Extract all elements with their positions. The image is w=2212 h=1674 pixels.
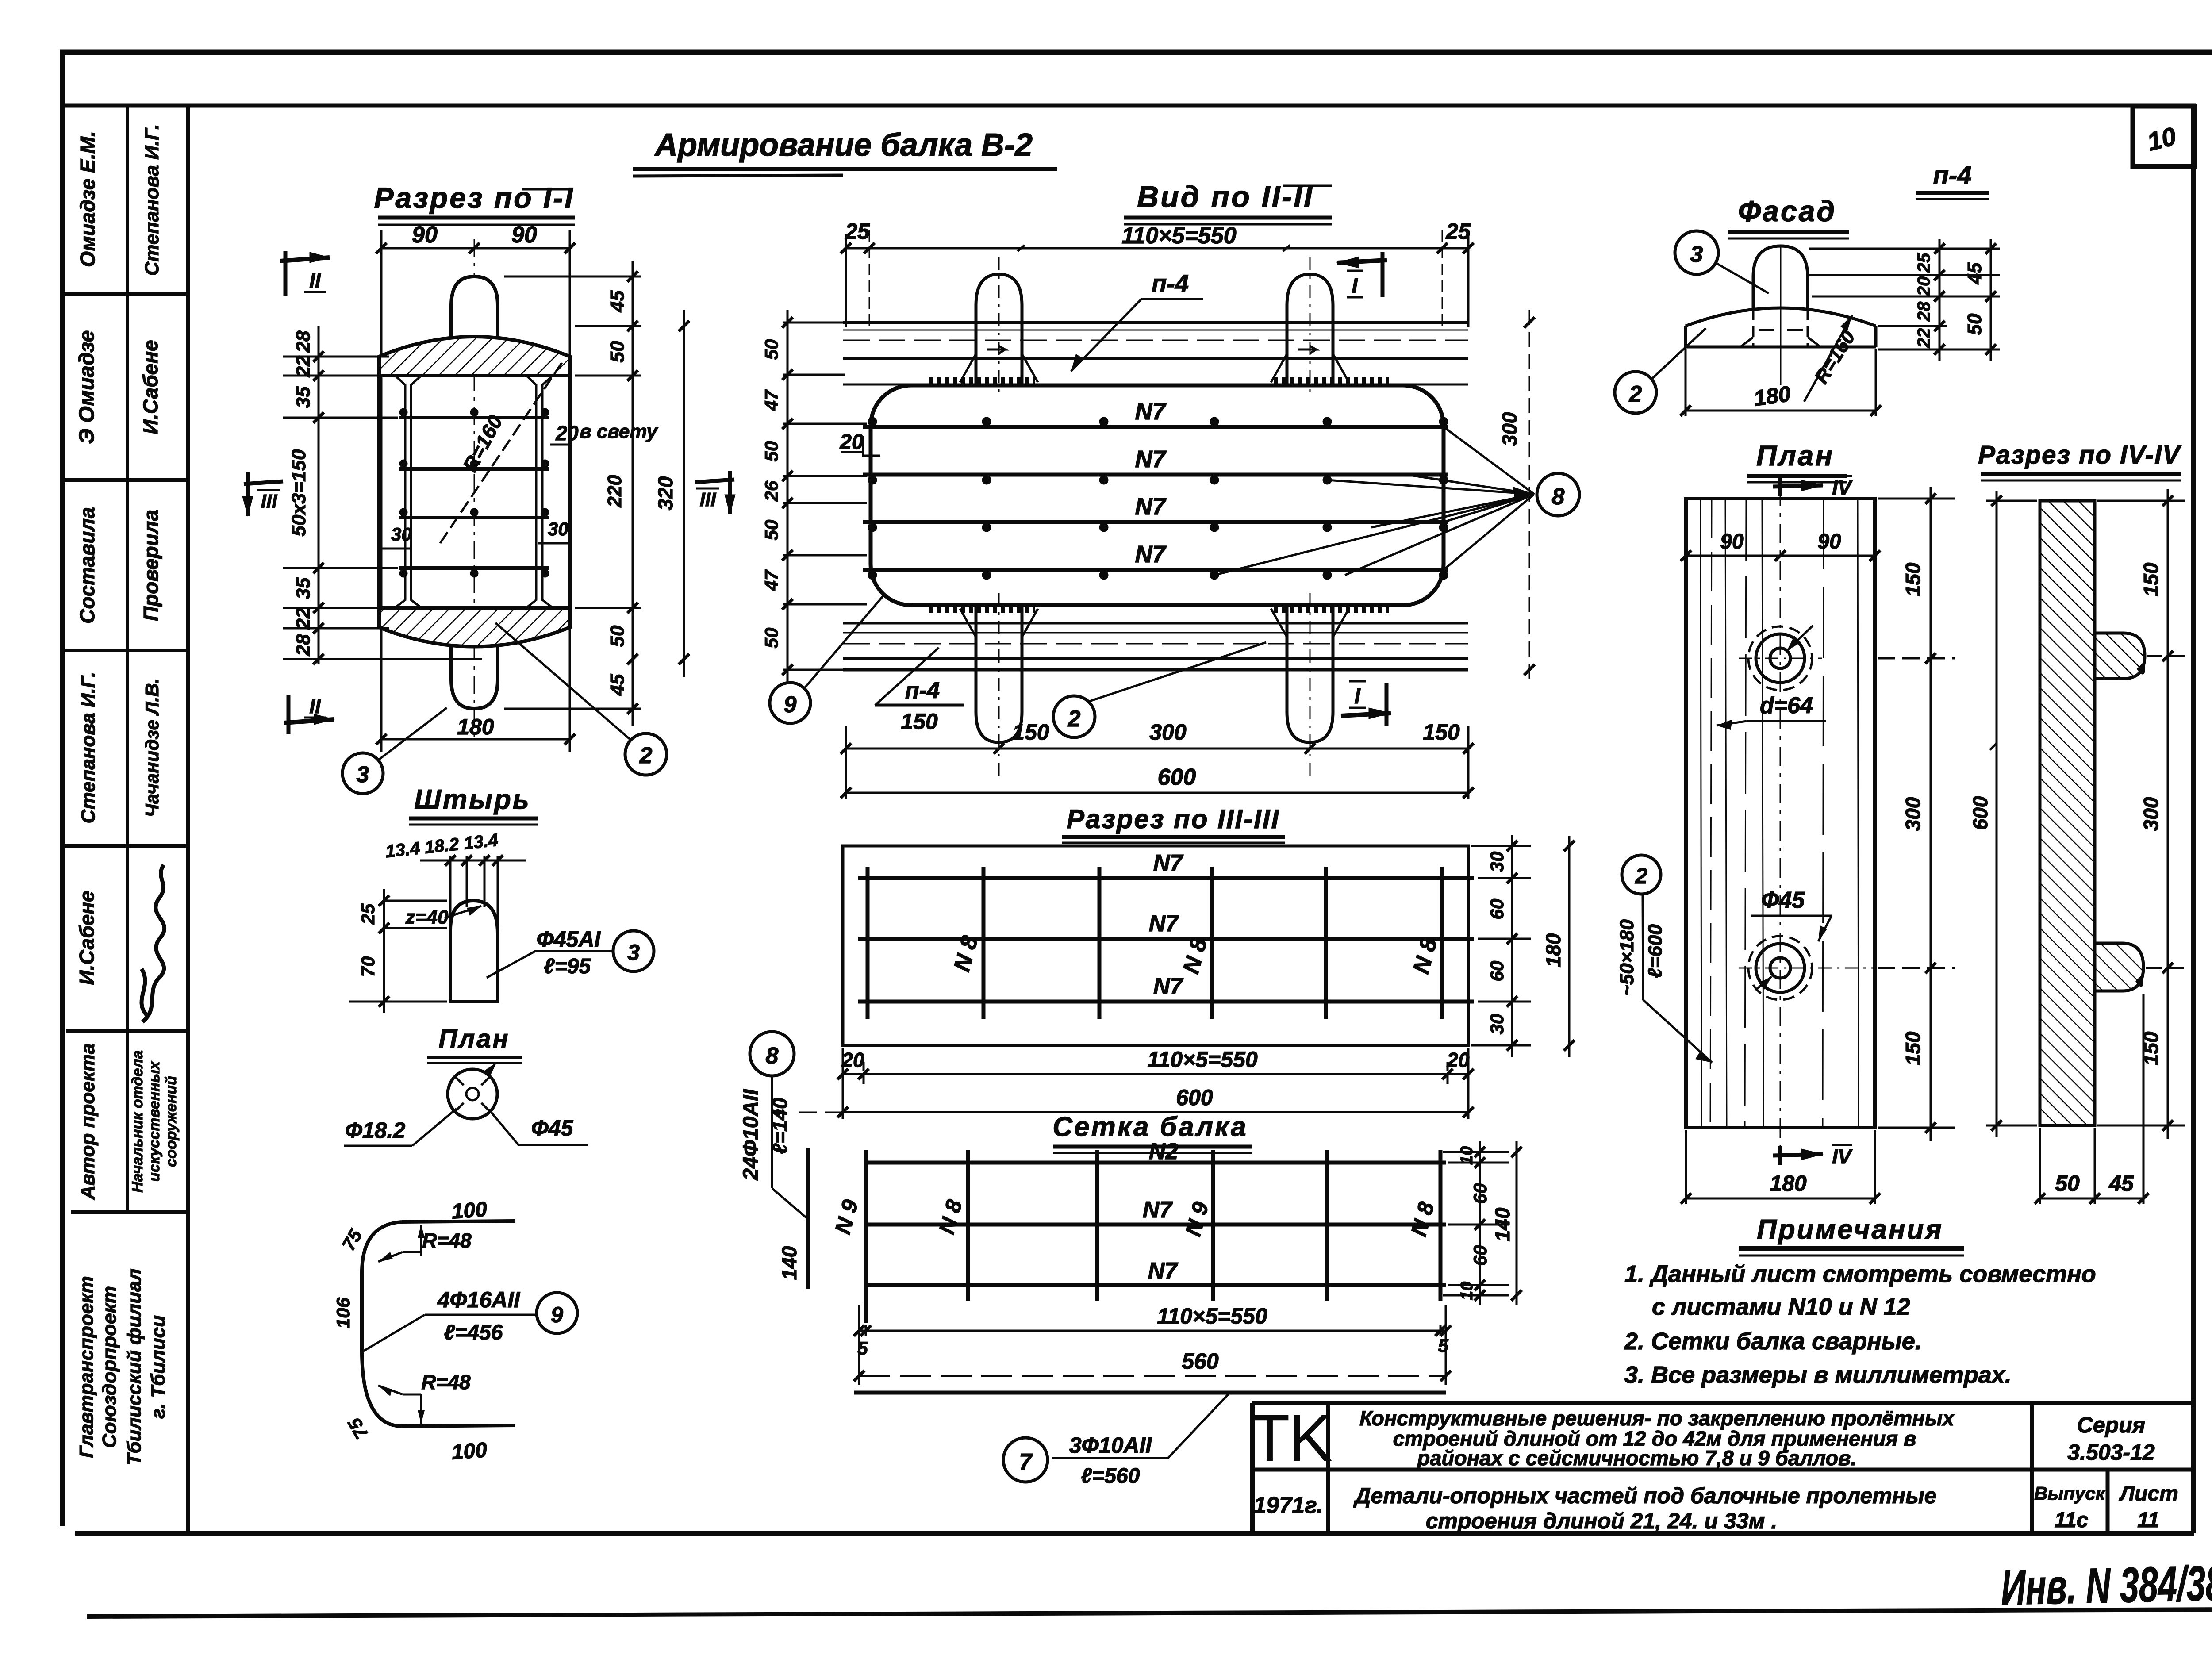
svg-text:строения длиной 21, 24.: строения длиной 21, 24. и 33м . [1426,1509,1778,1533]
svg-text:35: 35 [292,577,314,599]
svg-text:d=64: d=64 [1760,693,1813,718]
mesh III-III right dims 30/60/60/30 [1471,835,1531,1057]
view II-II bottom band layers [843,623,1468,670]
plan d=64 label [1717,693,1826,730]
small plan labels F18.2 F45 [344,1109,588,1146]
svg-text:ℓ=95: ℓ=95 [544,955,591,978]
callout circle 2 with leader [1053,642,1266,737]
view section I-I title [374,181,575,225]
svg-text:1971г.: 1971г. [1253,1493,1323,1518]
callout circle 9 with leader [770,595,884,723]
svg-text:10: 10 [1458,1282,1476,1300]
svg-text:25: 25 [357,903,378,925]
U-bar R=48 top [378,1225,472,1262]
svg-text:106: 106 [333,1297,353,1328]
plan hole d=64 [1739,626,1822,690]
svg-text:N7: N7 [1135,446,1167,472]
svg-text:Ф45: Ф45 [531,1116,574,1140]
plan right dim chain 150/300/150 [1878,487,1955,1141]
svg-text:z=40: z=40 [405,906,449,928]
svg-text:Фасад: Фасад [1738,195,1836,227]
section I-I top dimension 90+90 [376,230,575,752]
svg-text:90: 90 [1720,530,1744,553]
U-bar detail top 100 [402,1198,515,1223]
section IV-IV hatched wall [2040,501,2095,1125]
svg-text:Союздорпроект: Союздорпроект [99,1286,120,1448]
mesh III-III bar labels [949,850,1442,999]
section I-I top pin [451,276,498,358]
svg-text:3: 3 [1690,242,1703,267]
svg-text:Разрез по IV-IV: Разрез по IV-IV [1978,441,2181,469]
svg-text:N7: N7 [1148,1258,1179,1284]
section I-I right dimension chain 45/50/220/50/45 [504,261,641,726]
svg-text:N7: N7 [1135,493,1167,520]
svg-text:Выпуск: Выпуск [2034,1483,2106,1504]
svg-text:26: 26 [761,480,782,502]
svg-text:150: 150 [901,709,938,734]
setka balka bottom dims [854,1305,1451,1385]
svg-text:50: 50 [2055,1171,2080,1196]
section I-I 30 dims [379,518,570,549]
svg-text:90: 90 [1817,530,1841,553]
svg-text:Ф45АI: Ф45АI [537,927,601,952]
svg-text:140: 140 [778,1246,801,1280]
svg-text:I: I [1354,685,1361,708]
svg-text:2: 2 [1629,381,1642,407]
plan callout circle 2 rotated note [1616,855,1712,1063]
svg-text:N2: N2 [1149,1139,1179,1164]
svg-text:Разрез по III-III: Разрез по III-III [1067,804,1280,834]
svg-text:140: 140 [1491,1207,1514,1241]
svg-text:22: 22 [292,355,314,377]
svg-text:2: 2 [1068,706,1081,732]
svg-text:2: 2 [1635,864,1647,888]
svg-text:45: 45 [607,290,628,312]
svg-text:25: 25 [1445,219,1471,244]
svg-text:220: 220 [604,475,626,508]
svg-text:9: 9 [551,1302,563,1327]
facade beam arc [1686,308,1876,347]
facade right dim 45/50 [1985,239,1996,361]
view II-II p-4 top label [1071,269,1203,371]
plan hole F45 [1739,936,1876,1000]
svg-text:20: 20 [555,422,579,445]
setka balka labels [830,1139,1439,1284]
pin detail title [409,784,538,825]
svg-text:Ф45: Ф45 [1761,887,1805,913]
svg-text:25: 25 [1914,253,1934,273]
svg-text:Степанова И.Г.: Степанова И.Г. [77,672,99,824]
svg-text:30: 30 [1486,1014,1507,1035]
facade right dim chain 25/20/28/22 [1809,239,2000,361]
svg-text:70: 70 [357,956,378,977]
section IV-IV right dim chain 150/300/150 [2097,489,2185,1139]
mesh III-III horizontal bars N7 [858,878,1474,1002]
sidebar cell: names row4 [77,672,162,824]
svg-text:25: 25 [845,219,870,244]
svg-text:Чачанидзе Л.В.: Чачанидзе Л.В. [142,678,162,817]
svg-text:22: 22 [292,607,314,630]
title block list cell [2119,1482,2178,1532]
svg-text:сооружений: сооружений [163,1076,180,1167]
svg-text:Ф18.2: Ф18.2 [345,1118,406,1143]
svg-text:50: 50 [761,441,782,462]
view II-II weld strips top [929,377,1389,384]
U-bar 75/106/75 labels [333,1225,372,1443]
svg-text:Главтранспроект: Главтранспроект [76,1276,97,1458]
svg-text:III: III [261,491,277,512]
mesh III-III bottom dim 110x5=550 [837,1048,1474,1119]
svg-text:Омиадзе Е.М.: Омиадзе Е.М. [76,131,99,267]
setka balka 560 dim [854,1349,1451,1381]
section marker III left [242,472,283,516]
svg-text:3: 3 [357,762,369,787]
svg-text:24Ф10АII: 24Ф10АII [739,1089,763,1181]
svg-text:Степанова И.Г.: Степанова И.Г. [141,124,163,276]
sidebar cell: signatures row2 [75,330,162,444]
section I-I overall 320 dimension [679,310,689,677]
sidebar cell: signatures row5 [75,865,165,1022]
mesh III-III vertical bars N8 [868,867,1442,1019]
svg-text:И.Сабене: И.Сабене [75,891,98,985]
svg-text:N7: N7 [1153,974,1184,999]
svg-text:ℓ=560: ℓ=560 [1081,1464,1140,1488]
callout circle 2 [495,623,667,775]
facade callout circle 3 [1675,231,1769,293]
svg-text:20: 20 [841,1048,864,1071]
svg-text:5: 5 [857,1338,868,1359]
section IV-IV title [1978,441,2181,480]
small plan pin top view [448,1063,497,1119]
svg-text:п-4: п-4 [1933,161,1972,190]
svg-text:300: 300 [1901,797,1924,831]
svg-text:100: 100 [451,1438,488,1464]
plan IV marker top [1773,476,1853,499]
svg-text:~50×180: ~50×180 [1616,919,1638,996]
section marker II bottom-left [284,695,334,734]
section I-I rebar rows [399,408,549,577]
svg-text:28: 28 [1914,301,1934,322]
title block series cell [2067,1413,2155,1465]
U-bar bottom 100 [402,1425,515,1464]
svg-text:300: 300 [2139,797,2162,831]
svg-text:50: 50 [761,628,782,649]
svg-text:5: 5 [1438,1335,1448,1356]
svg-text:IV: IV [1832,1145,1853,1168]
svg-text:180: 180 [1752,381,1792,411]
section I-I centerline [474,239,475,743]
svg-text:150: 150 [1901,1031,1924,1065]
small plan title [427,1025,522,1063]
svg-text:N7: N7 [1135,398,1167,425]
facade R=160 [1804,315,1859,402]
section IV-IV bottom 50/45 dimension [2035,994,2149,1204]
svg-text:22: 22 [1914,328,1934,349]
svg-text:7: 7 [1019,1449,1033,1475]
mesh III-III outer rect [843,846,1468,1045]
svg-text:Начальник отдела: Начальник отдела [129,1050,146,1193]
svg-text:1. Данный лист смотреть сов: 1. Данный лист смотреть совместно [1624,1261,2096,1287]
view II-II weld strips bottom [929,606,1389,613]
svg-text:45: 45 [607,674,628,696]
plan right wood grain lines [1701,499,1859,1128]
svg-text:45: 45 [2108,1171,2134,1196]
U-bar body [362,1222,402,1426]
setka balka horizontal bars [864,1163,1446,1285]
title block description row 2 [1353,1483,1936,1533]
svg-text:районах с сейсмичностью 7: районах с сейсмичностью 7,8 и 9 баллов. [1416,1446,1856,1470]
svg-text:50: 50 [607,341,628,362]
svg-text:IV: IV [1832,476,1853,499]
sidebar cell: organization row7 [76,1269,169,1466]
svg-text:600: 600 [1176,1085,1213,1110]
svg-text:Детали-опорных частей под б: Детали-опорных частей под балочные проле… [1353,1483,1936,1508]
svg-text:в свету: в свету [580,421,658,442]
view II-II rebar N7 lines [863,417,1448,580]
svg-text:28: 28 [292,634,314,656]
mesh III-III title [1062,804,1285,843]
svg-text:Разрез по I-I: Разрез по I-I [374,181,574,214]
svg-text:150: 150 [2139,562,2162,596]
view II-II left dimension chain 50/47/50/26/50/47/50 [782,310,867,683]
svg-text:План: План [438,1025,510,1053]
svg-text:20: 20 [1914,276,1934,297]
svg-text:28: 28 [292,330,314,353]
lone bar 3F10AII [854,1393,1446,1488]
section IV-IV pin 2 [2095,943,2143,991]
svg-text:Тбилисский филиал: Тбилисский филиал [123,1269,145,1466]
svg-text:Сетка балка: Сетка балка [1052,1112,1248,1142]
section marker I bottom right [1341,681,1391,726]
view II-II top dimension 110x5=550 [841,219,1474,330]
svg-text:600: 600 [1158,764,1196,790]
svg-text:300: 300 [1498,412,1521,446]
plan F45 label [1751,887,1832,941]
callout circle 8 with leaders [1214,427,1579,575]
section I-I top cap (hatched) [379,337,570,376]
svg-text:I: I [1352,274,1358,298]
svg-text:90: 90 [412,222,438,248]
svg-text:TK: TK [1249,1401,1332,1475]
view II-II bottom pin left [960,593,1038,779]
sample vertical bar l=140 [778,1148,808,1289]
sidebar grid [64,105,188,1533]
inventory number [2001,1555,2212,1616]
svg-text:600: 600 [1969,796,1992,830]
svg-text:III: III [700,489,716,511]
svg-text:N7: N7 [1149,911,1179,937]
section I-I bottom 180 dimension [376,714,575,745]
svg-text:г. Тбилиси: г. Тбилиси [147,1315,169,1419]
svg-text:9: 9 [784,692,797,718]
section marker III right [695,471,735,514]
section IV-IV pin 1 [2095,633,2145,679]
svg-text:R=48: R=48 [422,1229,472,1252]
svg-text:Автор проекта: Автор проекта [77,1043,99,1200]
pin detail left dims 25/70 [349,889,447,1013]
svg-text:Составила: Составила [76,507,99,623]
svg-text:Проверила: Проверила [139,510,162,621]
view II-II bottom pin right [1271,593,1349,779]
svg-text:п-4: п-4 [1152,269,1189,297]
note 1 [1624,1261,2096,1320]
svg-text:8: 8 [766,1043,779,1069]
section I-I stirrup verticals [396,376,552,607]
section marker II top-left [280,251,330,296]
svg-text:50: 50 [761,339,782,360]
svg-text:50: 50 [761,520,782,541]
svg-text:И.Сабене: И.Сабене [139,340,162,434]
facade callout circle 2 [1615,328,1706,413]
svg-text:N7: N7 [1143,1197,1173,1223]
svg-text:Штырь: Штырь [414,784,530,815]
svg-text:30: 30 [548,518,568,539]
svg-text:50x3=150: 50x3=150 [288,449,310,537]
svg-text:180: 180 [1542,933,1565,967]
svg-text:2. Сетки балка сварные.: 2. Сетки балка сварные. [1624,1328,1922,1355]
svg-text:4Ф16АII: 4Ф16АII [437,1287,520,1312]
svg-text:320: 320 [654,476,677,510]
svg-text:11: 11 [2137,1509,2159,1532]
title block description row 1 [1359,1406,1955,1470]
pin detail z=40 note [405,906,481,928]
section I-I web outline [379,357,570,628]
svg-text:35: 35 [292,386,314,408]
section I-I R=160 radius line [438,363,562,546]
plan right title [1747,440,1847,482]
svg-text:60: 60 [1470,1245,1490,1266]
facade pin dome [1740,246,1820,385]
section I-I bottom cap (hatched) [379,608,570,647]
svg-text:Лист: Лист [2119,1482,2178,1505]
svg-text:300: 300 [1149,720,1187,745]
p-4 heading [1916,161,1989,199]
svg-text:60: 60 [1486,961,1507,982]
svg-text:47: 47 [761,389,782,411]
svg-text:II: II [309,695,321,718]
svg-text:90: 90 [511,222,537,248]
svg-text:8: 8 [1552,484,1565,510]
view II-II top band layers [843,323,1468,384]
svg-text:2: 2 [639,743,653,768]
svg-text:п-4: п-4 [905,678,940,703]
view II-II top pin right [1271,257,1349,398]
view II-II right 300 dimension [1498,310,1535,683]
svg-text:3: 3 [627,940,640,965]
svg-text:110×5=550: 110×5=550 [1147,1047,1258,1072]
svg-text:План: План [1756,440,1834,472]
svg-text:45: 45 [1964,262,1985,284]
leader 24F10AII circle 8 [739,1032,806,1217]
notes title [1739,1214,1964,1255]
setka balka right 140 dim [1511,1141,1522,1305]
plan IV marker bottom [1773,1145,1853,1168]
svg-text:11с: 11с [2055,1509,2089,1532]
setka balka vertical bars [866,1150,1440,1323]
svg-text:50: 50 [607,625,628,647]
p-4 150 flag bottom left [875,648,964,734]
svg-text:с листами N10 и N 12: с листами N10 и N 12 [1652,1294,1910,1320]
svg-text:50: 50 [1964,313,1985,335]
svg-text:60: 60 [1470,1183,1490,1204]
title block vypusk cell [2034,1483,2106,1532]
view II-II beam outline rounded rect [871,385,1444,605]
svg-text:20: 20 [839,430,864,454]
svg-text:10: 10 [1458,1146,1476,1165]
svg-text:R=48: R=48 [421,1371,471,1394]
U-bar R=48 bottom [378,1371,471,1424]
svg-text:150: 150 [1012,720,1049,745]
svg-text:3.503-12: 3.503-12 [2067,1440,2155,1465]
svg-text:Инв. N 384/38: Инв. N 384/38 [2001,1555,2212,1616]
svg-text:N7: N7 [1153,850,1184,876]
svg-text:30: 30 [1486,852,1507,872]
svg-text:30: 30 [391,524,412,545]
view II-II 20 offset note [839,430,880,456]
plan 90 90 dimension [1681,530,1880,561]
sidebar cell: roles row6 [77,1043,180,1200]
svg-text:180: 180 [1770,1171,1807,1196]
main title [633,127,1057,176]
setka balka right dims 10/60/60/10 [1443,1141,1509,1305]
svg-text:II: II [309,269,321,292]
svg-text:Армирование балка В-2: Армирование балка В-2 [654,127,1033,163]
svg-text:560: 560 [1182,1349,1219,1374]
svg-text:110×5=550: 110×5=550 [1121,223,1236,249]
mesh III-III right 180 dim [1564,836,1575,1057]
svg-text:ℓ=456: ℓ=456 [444,1321,503,1344]
svg-text:Примечания: Примечания [1757,1214,1943,1245]
corner sheet number box [2133,106,2194,166]
view II-II bottom dimension 600 [841,726,1474,799]
svg-text:20: 20 [1446,1048,1470,1071]
mesh III-III bottom dim 600 [771,1085,1474,1117]
setka balka title [1052,1112,1252,1153]
pin detail label F45AI l=95 [487,927,654,978]
view II-II N7 labels [1135,398,1167,568]
view II-II title [1124,180,1332,224]
svg-text:Э Омиадзе: Э Омиадзе [75,330,99,444]
callout circle 3 [342,708,447,794]
svg-text:110×5=550: 110×5=550 [1157,1304,1267,1328]
section I-I bottom pin [451,646,498,709]
svg-text:3. Все размеры в миллиметра: 3. Все размеры в миллиметрах. [1624,1362,2012,1388]
svg-text:150: 150 [1423,720,1460,745]
sidebar cell: roles row3 [76,507,162,623]
facade title [1728,195,1849,238]
svg-text:ℓ=600: ℓ=600 [1644,924,1666,978]
pin detail body [450,901,498,1002]
facade 180 dimension [1680,349,1881,416]
section marker I top right [1337,252,1387,298]
plan right centerline [1780,487,1781,1146]
svg-text:150: 150 [1901,562,1924,596]
plan right outline [1686,499,1875,1128]
U-bar label 4F16AII [363,1287,577,1351]
svg-text:180: 180 [457,714,494,739]
view II-II top pin left [960,257,1038,398]
svg-text:искусственных: искусственных [146,1060,163,1182]
sidebar cell: author names row1 [76,124,163,276]
view II-II bottom dimension 150/300/150 [841,743,1474,754]
svg-text:N7: N7 [1135,541,1167,568]
title block grid [1252,1403,2193,1533]
svg-text:60: 60 [1486,899,1507,920]
svg-text:Серия: Серия [2077,1413,2145,1437]
section I-I left dimension chain [283,326,482,664]
plan bottom 180 dimension [1681,1130,1880,1204]
svg-text:47: 47 [761,569,782,591]
